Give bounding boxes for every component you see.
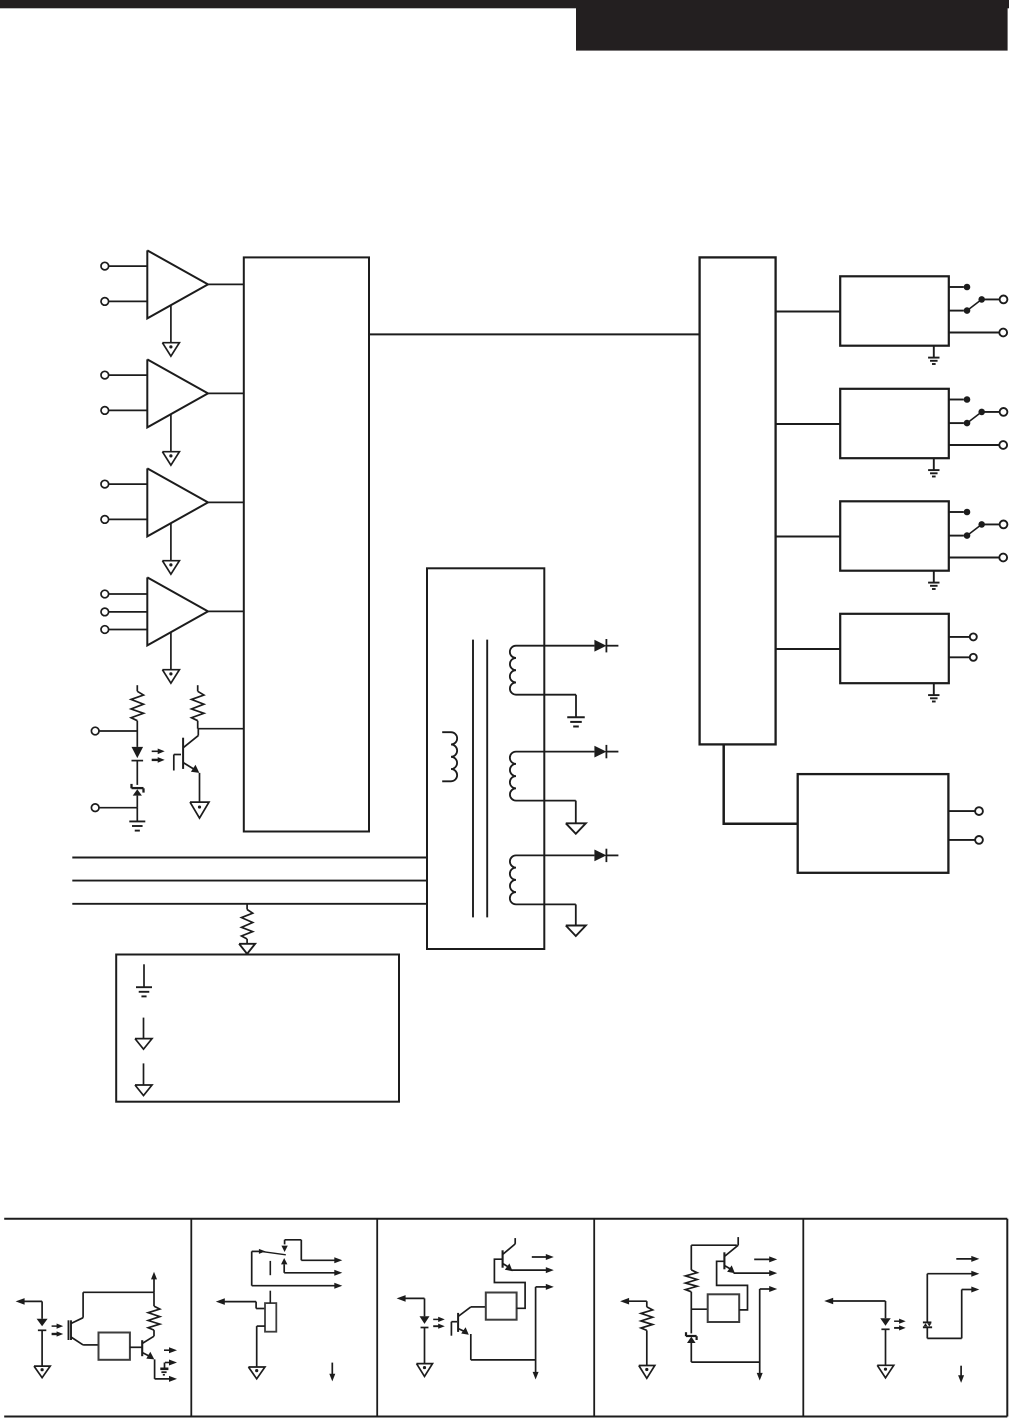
p2 out arrow 3 bbox=[334, 1283, 342, 1289]
transformer block T1 outline bbox=[427, 568, 544, 949]
p2 pole wire bbox=[252, 1251, 336, 1285]
p3 phototransistor bbox=[451, 1307, 485, 1336]
p2 wire upper contact bbox=[285, 1240, 302, 1261]
p1 terminal arrow bbox=[16, 1298, 42, 1319]
p4 out arrow 3 bbox=[760, 1286, 778, 1292]
p3 transistor Q bbox=[503, 1238, 516, 1271]
terminal A4 out- bbox=[949, 654, 977, 661]
p4 wire to box bbox=[691, 1308, 707, 1310]
buffer U1 bbox=[147, 250, 208, 318]
terminal A5 out- bbox=[948, 836, 982, 844]
relay contact NO stub A1 bbox=[949, 307, 971, 314]
p4 amplifier box bbox=[708, 1294, 740, 1322]
table frame bbox=[4, 1219, 1007, 1417]
input terminal U4.3 bbox=[101, 626, 147, 634]
p3 common rail + down arrow bbox=[533, 1287, 539, 1380]
wire U6 to output block 2 bbox=[776, 423, 841, 425]
wire U2 output bbox=[208, 392, 244, 394]
primary winding L1 bbox=[442, 732, 457, 781]
p3 base path bbox=[494, 1259, 525, 1308]
terminal A2 common bbox=[982, 408, 1008, 416]
diode D3 bbox=[594, 639, 618, 652]
p1 out arrow top bbox=[164, 1347, 177, 1353]
p4 zener diode bbox=[686, 1332, 697, 1362]
p1 resistor R bbox=[148, 1292, 160, 1336]
p4 out arrow 1 bbox=[754, 1256, 777, 1262]
p2 down arrow bbox=[329, 1363, 335, 1382]
p2 out arrow 1 bbox=[301, 1257, 342, 1263]
diode D5 bbox=[594, 849, 618, 862]
secondary winding L4 bbox=[510, 855, 516, 904]
resistor R1 bbox=[131, 685, 143, 731]
wire L4 top lead bbox=[516, 854, 594, 856]
bus wire VCC bbox=[72, 857, 427, 859]
diode D4 bbox=[594, 745, 618, 758]
input terminal IN- bbox=[91, 804, 137, 812]
p1 supply arrow up bbox=[151, 1272, 157, 1293]
earth ground under A1 bbox=[928, 346, 939, 364]
opto light arrows bbox=[152, 749, 165, 763]
input terminal U3.1 bbox=[101, 480, 147, 488]
p1 wire box to Q base bbox=[130, 1346, 142, 1348]
p3 light arrows bbox=[433, 1317, 445, 1329]
p5 light arrows bbox=[894, 1319, 906, 1331]
p3 out arrow 2 bbox=[511, 1267, 554, 1273]
ground (power) secondary 2 bbox=[566, 823, 586, 834]
terminal A5 out+ bbox=[948, 807, 982, 815]
buffer U3 bbox=[147, 468, 208, 536]
switch arm A3 bbox=[967, 521, 985, 535]
wire U6 to output block 4 bbox=[776, 648, 841, 650]
top rule bar bbox=[0, 0, 1009, 8]
input terminal U4.2 bbox=[101, 608, 147, 616]
p1 LED bbox=[37, 1319, 48, 1366]
terminal A4 out+ bbox=[949, 633, 977, 640]
wire L3 top lead bbox=[516, 751, 594, 753]
output block A3 bbox=[840, 501, 949, 570]
p1 out arrow mid bbox=[165, 1360, 178, 1369]
resistor R2 bbox=[192, 685, 204, 729]
earth ground under A4 bbox=[928, 683, 939, 701]
earth ground under A3 bbox=[928, 571, 939, 589]
p1 emitter wire bbox=[155, 1359, 171, 1379]
legend logic ground symbol bbox=[135, 1018, 152, 1050]
p5 down arrow bbox=[958, 1366, 964, 1383]
secondary winding L2 bbox=[510, 646, 516, 695]
switch arm A2 bbox=[967, 409, 985, 424]
p1 phototransistor bbox=[69, 1292, 99, 1345]
p4 resistor bbox=[641, 1307, 653, 1366]
p2 coil return wire bbox=[257, 1326, 265, 1367]
ground (logic) under U3 bbox=[162, 523, 179, 574]
p5 anode wire bbox=[927, 1274, 973, 1323]
wire L2 return bbox=[516, 695, 576, 717]
legend earth ground symbol bbox=[136, 964, 152, 996]
p2 switch bbox=[252, 1249, 286, 1255]
note box bbox=[116, 955, 399, 1102]
p2 mechanical link (dashed) bbox=[269, 1261, 271, 1303]
p1 top rail wire bbox=[83, 1291, 154, 1293]
relay contact NC stub A1 bbox=[949, 284, 971, 291]
p4 supply rail bbox=[691, 1245, 737, 1270]
p3 out arrow 3 bbox=[536, 1284, 554, 1290]
output block A4 bbox=[840, 614, 949, 683]
ground (logic) under U1 bbox=[162, 305, 179, 356]
aux block A5 bbox=[798, 774, 949, 873]
p3 LED bbox=[420, 1316, 430, 1363]
switch arm A1 bbox=[967, 296, 985, 311]
p3 emitter wire bbox=[471, 1334, 536, 1360]
earth ground (chassis) opto bbox=[129, 808, 145, 831]
wire U3 output bbox=[208, 501, 244, 503]
input terminal U2.2 bbox=[101, 407, 147, 415]
earth ground under A2 bbox=[928, 458, 939, 476]
wire L3 return bbox=[516, 801, 576, 824]
input terminal U1.1 bbox=[101, 262, 147, 270]
p5 ground (logic) bbox=[877, 1365, 894, 1378]
logic block U5 bbox=[244, 257, 369, 831]
bus wire V+ bbox=[72, 880, 427, 882]
ground (power) secondary 3 bbox=[566, 926, 586, 937]
wire U5 to U6 bbox=[369, 333, 700, 335]
terminal A1 return bbox=[949, 329, 1007, 337]
p5 cathode wire bbox=[927, 1290, 973, 1339]
terminal A2 return bbox=[949, 441, 1007, 449]
zener D2 bbox=[132, 784, 144, 808]
input terminal U3.2 bbox=[101, 516, 147, 524]
wire U4 output bbox=[208, 610, 244, 612]
p4 bottom wire bbox=[691, 1361, 759, 1363]
p1 ground (logic) bbox=[34, 1366, 50, 1378]
title block (solid) bbox=[576, 0, 1008, 51]
phototransistor Q1 bbox=[174, 729, 200, 773]
wire U6 to output block 3 bbox=[776, 536, 841, 538]
legend power ground symbol bbox=[135, 1063, 152, 1095]
LED D1 bbox=[132, 731, 144, 785]
p3 ground (logic) bbox=[417, 1364, 433, 1377]
wire U6 to output block 1 bbox=[776, 311, 841, 313]
decoder block U6 bbox=[700, 257, 776, 744]
p1 out arrow bottom bbox=[169, 1376, 177, 1382]
p1 amplifier box bbox=[99, 1333, 130, 1360]
p2 contact lower bbox=[281, 1258, 287, 1273]
output block A1 bbox=[840, 276, 949, 345]
transformer core bbox=[473, 640, 487, 918]
p5 out arrow 1 bbox=[956, 1256, 979, 1262]
wire L2 top lead bbox=[516, 645, 594, 647]
wire L4 return bbox=[516, 904, 576, 925]
buffer U2 bbox=[147, 359, 208, 427]
input terminal U2.1 bbox=[101, 371, 147, 379]
p5 LED bbox=[880, 1318, 891, 1365]
input terminal IN+ bbox=[91, 727, 137, 735]
p5 out arrow 2 bbox=[971, 1271, 979, 1277]
terminal A3 common bbox=[982, 521, 1008, 529]
p5 terminal arrow bbox=[824, 1298, 885, 1319]
p4 resistor R2 bbox=[686, 1270, 698, 1334]
ground (power) Q1 emitter bbox=[190, 773, 209, 818]
relay contact NO stub A2 bbox=[949, 420, 971, 427]
p4 base path bbox=[717, 1261, 748, 1310]
p3 amplifier box bbox=[486, 1293, 517, 1320]
relay contact NO stub A3 bbox=[949, 532, 971, 539]
p4 out arrow 2 bbox=[734, 1270, 778, 1276]
bus wire COM bbox=[72, 903, 427, 905]
p1 transistor Q bbox=[142, 1336, 154, 1359]
relay contact NC stub A2 bbox=[949, 396, 971, 403]
secondary winding L3 bbox=[510, 752, 516, 801]
p2 terminal arrow bbox=[216, 1298, 265, 1308]
p2 relay coil box bbox=[265, 1303, 276, 1332]
terminal A3 return bbox=[949, 554, 1007, 562]
p5 out arrow 3 bbox=[971, 1287, 979, 1293]
p2 contact upper bbox=[281, 1240, 287, 1252]
p4 terminal arrow bbox=[620, 1298, 647, 1307]
wire R2 to U5 bbox=[198, 728, 244, 730]
ground arrow into note box bbox=[239, 944, 255, 954]
relay contact NC stub A3 bbox=[949, 509, 971, 516]
ground (logic) under U2 bbox=[162, 414, 179, 465]
p3 out arrow 1 bbox=[532, 1254, 554, 1260]
p5 photodiode pair bbox=[923, 1322, 932, 1327]
input terminal U1.2 bbox=[101, 298, 147, 306]
p4 common rail + down arrow bbox=[757, 1289, 763, 1381]
p3 terminal arrow bbox=[397, 1295, 425, 1316]
resistor R3 bbox=[242, 904, 253, 944]
p2 out arrow 2 bbox=[284, 1270, 342, 1276]
earth ground secondary 1 bbox=[567, 717, 585, 726]
ground (logic) under U4 bbox=[162, 632, 179, 683]
input terminal U4.1 bbox=[101, 590, 147, 598]
p2 ground (logic) bbox=[248, 1367, 265, 1379]
buffer U4 bbox=[147, 577, 208, 645]
p1 mini earth ground bbox=[160, 1369, 168, 1375]
wire U1 output bbox=[208, 283, 244, 285]
p4 ground (logic) bbox=[639, 1366, 655, 1379]
p4 transistor Q bbox=[724, 1237, 738, 1273]
terminal A1 common bbox=[982, 296, 1008, 304]
wire U6 to aux block bbox=[724, 744, 798, 823]
output block A2 bbox=[840, 389, 949, 458]
p1 light arrows bbox=[52, 1324, 64, 1337]
